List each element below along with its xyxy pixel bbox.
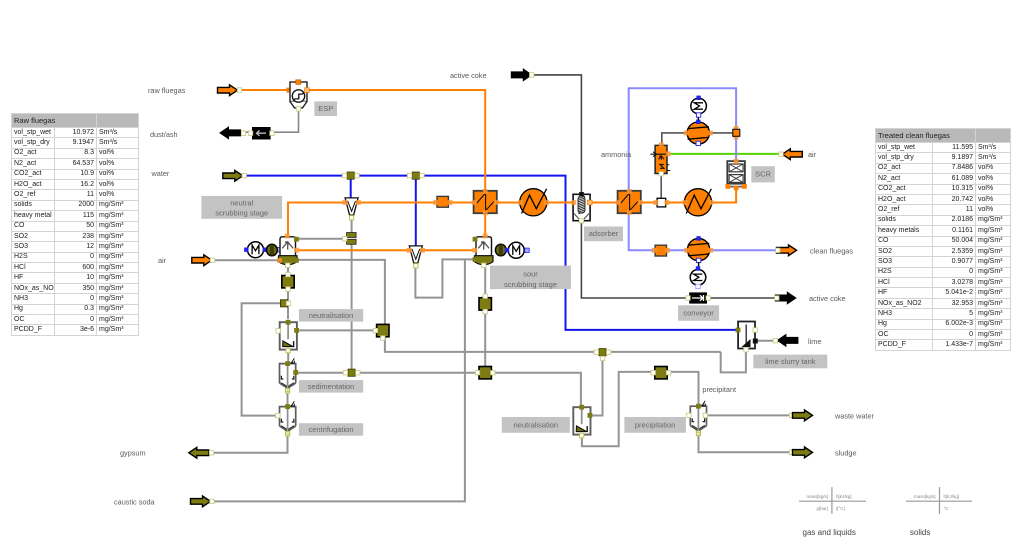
- precipitation tank: [687, 401, 708, 436]
- junction E on lime line: [594, 349, 611, 361]
- wire: sour sump bottom down through pump PU3 to junction J4: [484, 266, 486, 368]
- wire: SCR outlet loop: [735, 136, 737, 161]
- sedimentation tank: [280, 358, 299, 393]
- svg-text:mass[kg/s]: mass[kg/s]: [914, 494, 936, 499]
- wire: water drop to spray2: [415, 178, 417, 247]
- svg-text:p[bar]: p[bar]: [816, 506, 828, 511]
- wire: dust conveyor to arrow: [242, 131, 252, 133]
- wire: lime loop corner to lime tank bottom: [721, 351, 746, 373]
- neutral scrubber vessel: [277, 234, 299, 268]
- wire: HX2 to mixer to heater2: [641, 202, 685, 204]
- svg-text:mass[kg/s]: mass[kg/s]: [806, 494, 828, 499]
- junction J2 on water line: [407, 172, 424, 179]
- legend: gas and liquids cross: [799, 487, 866, 537]
- svg-text:ammonia: ammonia: [601, 150, 632, 159]
- ammonia evaporator: [651, 143, 671, 176]
- svg-text:SCR: SCR: [755, 170, 771, 179]
- label box: adsorber: [584, 227, 623, 242]
- active coke output arrow: [775, 293, 796, 304]
- label box: neutral scrubbing stage: [201, 196, 282, 219]
- svg-text:water: water: [151, 169, 170, 178]
- label box: sour scrubbing stage: [490, 266, 571, 290]
- svg-text:scrubbing stage: scrubbing stage: [504, 280, 557, 289]
- svg-text:raw fluegas: raw fluegas: [148, 86, 186, 95]
- neutral scrubber fan: [267, 244, 278, 256]
- neutralisation tank 1: [276, 320, 299, 353]
- wire: neutralisation2 bottom loop to pump PU4 and precipitation top: [582, 372, 699, 446]
- wire: conveyor to active coke arrow: [708, 297, 777, 299]
- wire: ESP to HX1 top and sour scrubber: [307, 90, 486, 192]
- svg-text:lime slurry tank: lime slurry tank: [765, 357, 816, 366]
- caustic soda input arrow: [191, 496, 215, 507]
- clean gas fan: [684, 236, 713, 262]
- label box: centrifugation: [299, 423, 363, 436]
- svg-text:h[kJ/kg]: h[kJ/kg]: [836, 494, 852, 499]
- wire: adsorber bottom to conveyor to active coke out: [581, 222, 688, 299]
- wire: E junction down to neutralisation2 right: [592, 355, 603, 416]
- svg-text:waste water: waste water: [834, 412, 875, 421]
- legend: solids cross: [906, 487, 972, 537]
- svg-text:sludge: sludge: [835, 449, 857, 458]
- clean gas fan motor: [690, 262, 706, 289]
- wire: tank1 bottom to sedimentation: [287, 351, 289, 362]
- wire: active coke from arrow to adsorber top: [533, 75, 581, 193]
- svg-text:lime: lime: [808, 337, 821, 346]
- svg-text:active coke: active coke: [809, 294, 846, 303]
- wire: sour to neutral scrubber gas line: [299, 249, 474, 251]
- wire: adsorber to HX2: [590, 202, 618, 204]
- lime input arrow: [773, 335, 798, 346]
- svg-text:gas and liquids: gas and liquids: [803, 528, 856, 537]
- label box: neutralisation (right): [502, 417, 570, 433]
- wire: ESP dust line to dust/ash conveyor: [271, 108, 299, 132]
- active coke input arrow top: [512, 70, 534, 81]
- wire: tank1 right to pump PU1: [299, 329, 377, 331]
- svg-text:clean fluegas: clean fluegas: [810, 247, 853, 256]
- heater2 circle HX: [683, 189, 714, 216]
- wire: raw fluegas to ESP: [241, 89, 289, 91]
- neutral scrubber motor: [244, 242, 280, 258]
- wire: damper to fan: [666, 249, 687, 251]
- junction J5 branch: [280, 300, 290, 307]
- svg-text:scrubbing stage: scrubbing stage: [215, 209, 268, 218]
- wire: lime tank to lime arrow: [756, 340, 774, 342]
- wire: HX2 bottom to clean gas fan line: [629, 213, 656, 250]
- svg-text:active coke: active coke: [450, 71, 487, 80]
- label box: lime slurry tank: [753, 355, 827, 369]
- ESP vessel: [286, 80, 309, 111]
- periwinkle tap component: [733, 126, 740, 140]
- svg-text:centrifugation: centrifugation: [308, 425, 353, 434]
- spray nozzle S1 on gas line: [342, 198, 360, 220]
- raw fluegas input arrow: [218, 85, 242, 96]
- top fan motor: [691, 96, 707, 120]
- air input arrow right (green line): [779, 149, 803, 160]
- HX1 gas-gas heat exchanger: [472, 189, 499, 215]
- svg-text:solids: solids: [910, 528, 930, 537]
- svg-text:neutral: neutral: [230, 199, 253, 208]
- wire: HX1 to heater1: [497, 202, 520, 204]
- air input arrow: [192, 255, 215, 266]
- label box: conveyor: [678, 305, 719, 321]
- wire: neutral sump right to down pipe: [297, 260, 385, 325]
- pump PU3 sour sump: [479, 294, 491, 314]
- svg-text:sedimentation: sedimentation: [308, 382, 355, 391]
- wire: water main line: [245, 176, 737, 330]
- junction J3 on sedimentation line: [343, 369, 360, 376]
- svg-text:°C: °C: [944, 506, 950, 511]
- svg-text:adsorber: adsorber: [589, 229, 619, 238]
- table: raw fluegas: [11, 113, 139, 336]
- wire: heater1 to adsorber: [547, 202, 574, 204]
- label box: SCR: [751, 166, 775, 182]
- wire: top fan right to periwinkle tap: [710, 132, 734, 134]
- neutralisation tank 2: [573, 405, 592, 438]
- label box: ESP: [314, 101, 337, 116]
- svg-text:precipitant: precipitant: [702, 385, 736, 394]
- wire: sedimentation overflow long line to neutralisation2 top: [297, 373, 581, 406]
- sour scrubber vessel: [472, 234, 493, 268]
- clean fluegas output arrow: [776, 245, 797, 256]
- wire: HX1 bottom to sour scrubber top: [484, 213, 486, 238]
- wire: heater2 to SCR bottom: [712, 188, 737, 203]
- sour scrubber fan: [495, 244, 506, 256]
- wire: evaporator bottom to ammonia mixer: [660, 174, 662, 198]
- clean gas damper: [652, 245, 670, 256]
- svg-text:air: air: [808, 150, 817, 159]
- wire: neutral sump bottom to pump PU2 and tank1: [287, 266, 289, 319]
- lime slurry tank: [736, 322, 758, 352]
- pump PU4 on precipitation feed: [651, 367, 671, 379]
- damper on scrubber outlet line: [433, 196, 452, 207]
- wire: valve down to junction J3: [351, 244, 353, 369]
- label box: precipitation: [624, 417, 686, 433]
- svg-text:ESP: ESP: [318, 104, 333, 113]
- svg-text:t[°C]: t[°C]: [836, 506, 845, 511]
- dust/ash output arrow: [220, 128, 245, 139]
- junction J1 on water line: [342, 172, 359, 179]
- sludge output arrow: [789, 447, 812, 458]
- wire: top fan left to ammonia evaporator: [662, 133, 687, 145]
- sour scrubber motor: [505, 242, 529, 258]
- table: treated clean fluegas: [875, 128, 1011, 351]
- label box: sedimentation: [299, 380, 363, 393]
- wire: neutral scrubber top right to valve: [297, 238, 345, 240]
- svg-text:gypsum: gypsum: [120, 449, 146, 458]
- svg-text:neutralisation: neutralisation: [513, 420, 558, 429]
- HX2 gas-gas heat exchanger: [616, 189, 643, 215]
- wire: caustic soda line: [213, 259, 465, 501]
- svg-text:caustic soda: caustic soda: [114, 498, 156, 507]
- pump PU2 neutral sump: [282, 272, 294, 291]
- wire: air to ammonia evaporator (green): [671, 153, 780, 155]
- wire: spray1 drain to valve: [351, 216, 353, 234]
- spray nozzle S2 on gas line: [407, 246, 425, 268]
- ammonia mixer: [653, 198, 669, 207]
- svg-text:h[kJ/kg]: h[kJ/kg]: [944, 494, 960, 499]
- SCR reactor: [725, 159, 746, 190]
- svg-text:precipitation: precipitation: [635, 420, 675, 429]
- svg-text:sour: sour: [523, 270, 538, 279]
- svg-text:air: air: [158, 256, 167, 265]
- svg-text:dust/ash: dust/ash: [150, 130, 178, 139]
- top fan (adsorber recycle): [684, 120, 713, 146]
- gypsum output arrow: [189, 447, 214, 458]
- wire: sedimentation bottom to centrifugation: [287, 392, 289, 405]
- junction J4 pump on long line: [475, 367, 495, 379]
- label box: neutralisation (left): [299, 309, 363, 322]
- dust/ash conveyor block: [248, 127, 274, 140]
- wire: periwinkle riser and return to HX2: [629, 88, 736, 191]
- conveyor block: [686, 292, 711, 303]
- wire: precipitation bottom to sludge: [699, 436, 794, 453]
- wire: neutral scrubber outlet riser: [288, 203, 474, 236]
- centrifugation tank: [276, 401, 296, 436]
- wire: fan to clean fluegas arrow: [710, 249, 777, 251]
- wire: air to neutral scrubber sump: [214, 259, 279, 261]
- svg-text:conveyor: conveyor: [683, 309, 714, 318]
- water input arrow: [223, 170, 247, 181]
- pump PU1 on tank1 outlet: [373, 324, 389, 340]
- heater1 circle HX: [518, 189, 549, 216]
- svg-text:neutralisation: neutralisation: [309, 311, 354, 320]
- wire: precipitation right to waste water: [704, 414, 794, 416]
- wire: centrifugation bottom to gypsum arrow: [213, 435, 288, 453]
- wire: pump PU1 down then lime slurry long line: [385, 337, 721, 352]
- wire: branch junction to centrifugation left: [242, 303, 283, 415]
- valve on quench water line: [343, 233, 357, 245]
- wire: sour sump left loop to spray2: [415, 259, 476, 297]
- waste water output arrow: [789, 410, 812, 421]
- wire: water drop to spray1: [350, 178, 352, 199]
- adsorber vessel: [571, 192, 592, 223]
